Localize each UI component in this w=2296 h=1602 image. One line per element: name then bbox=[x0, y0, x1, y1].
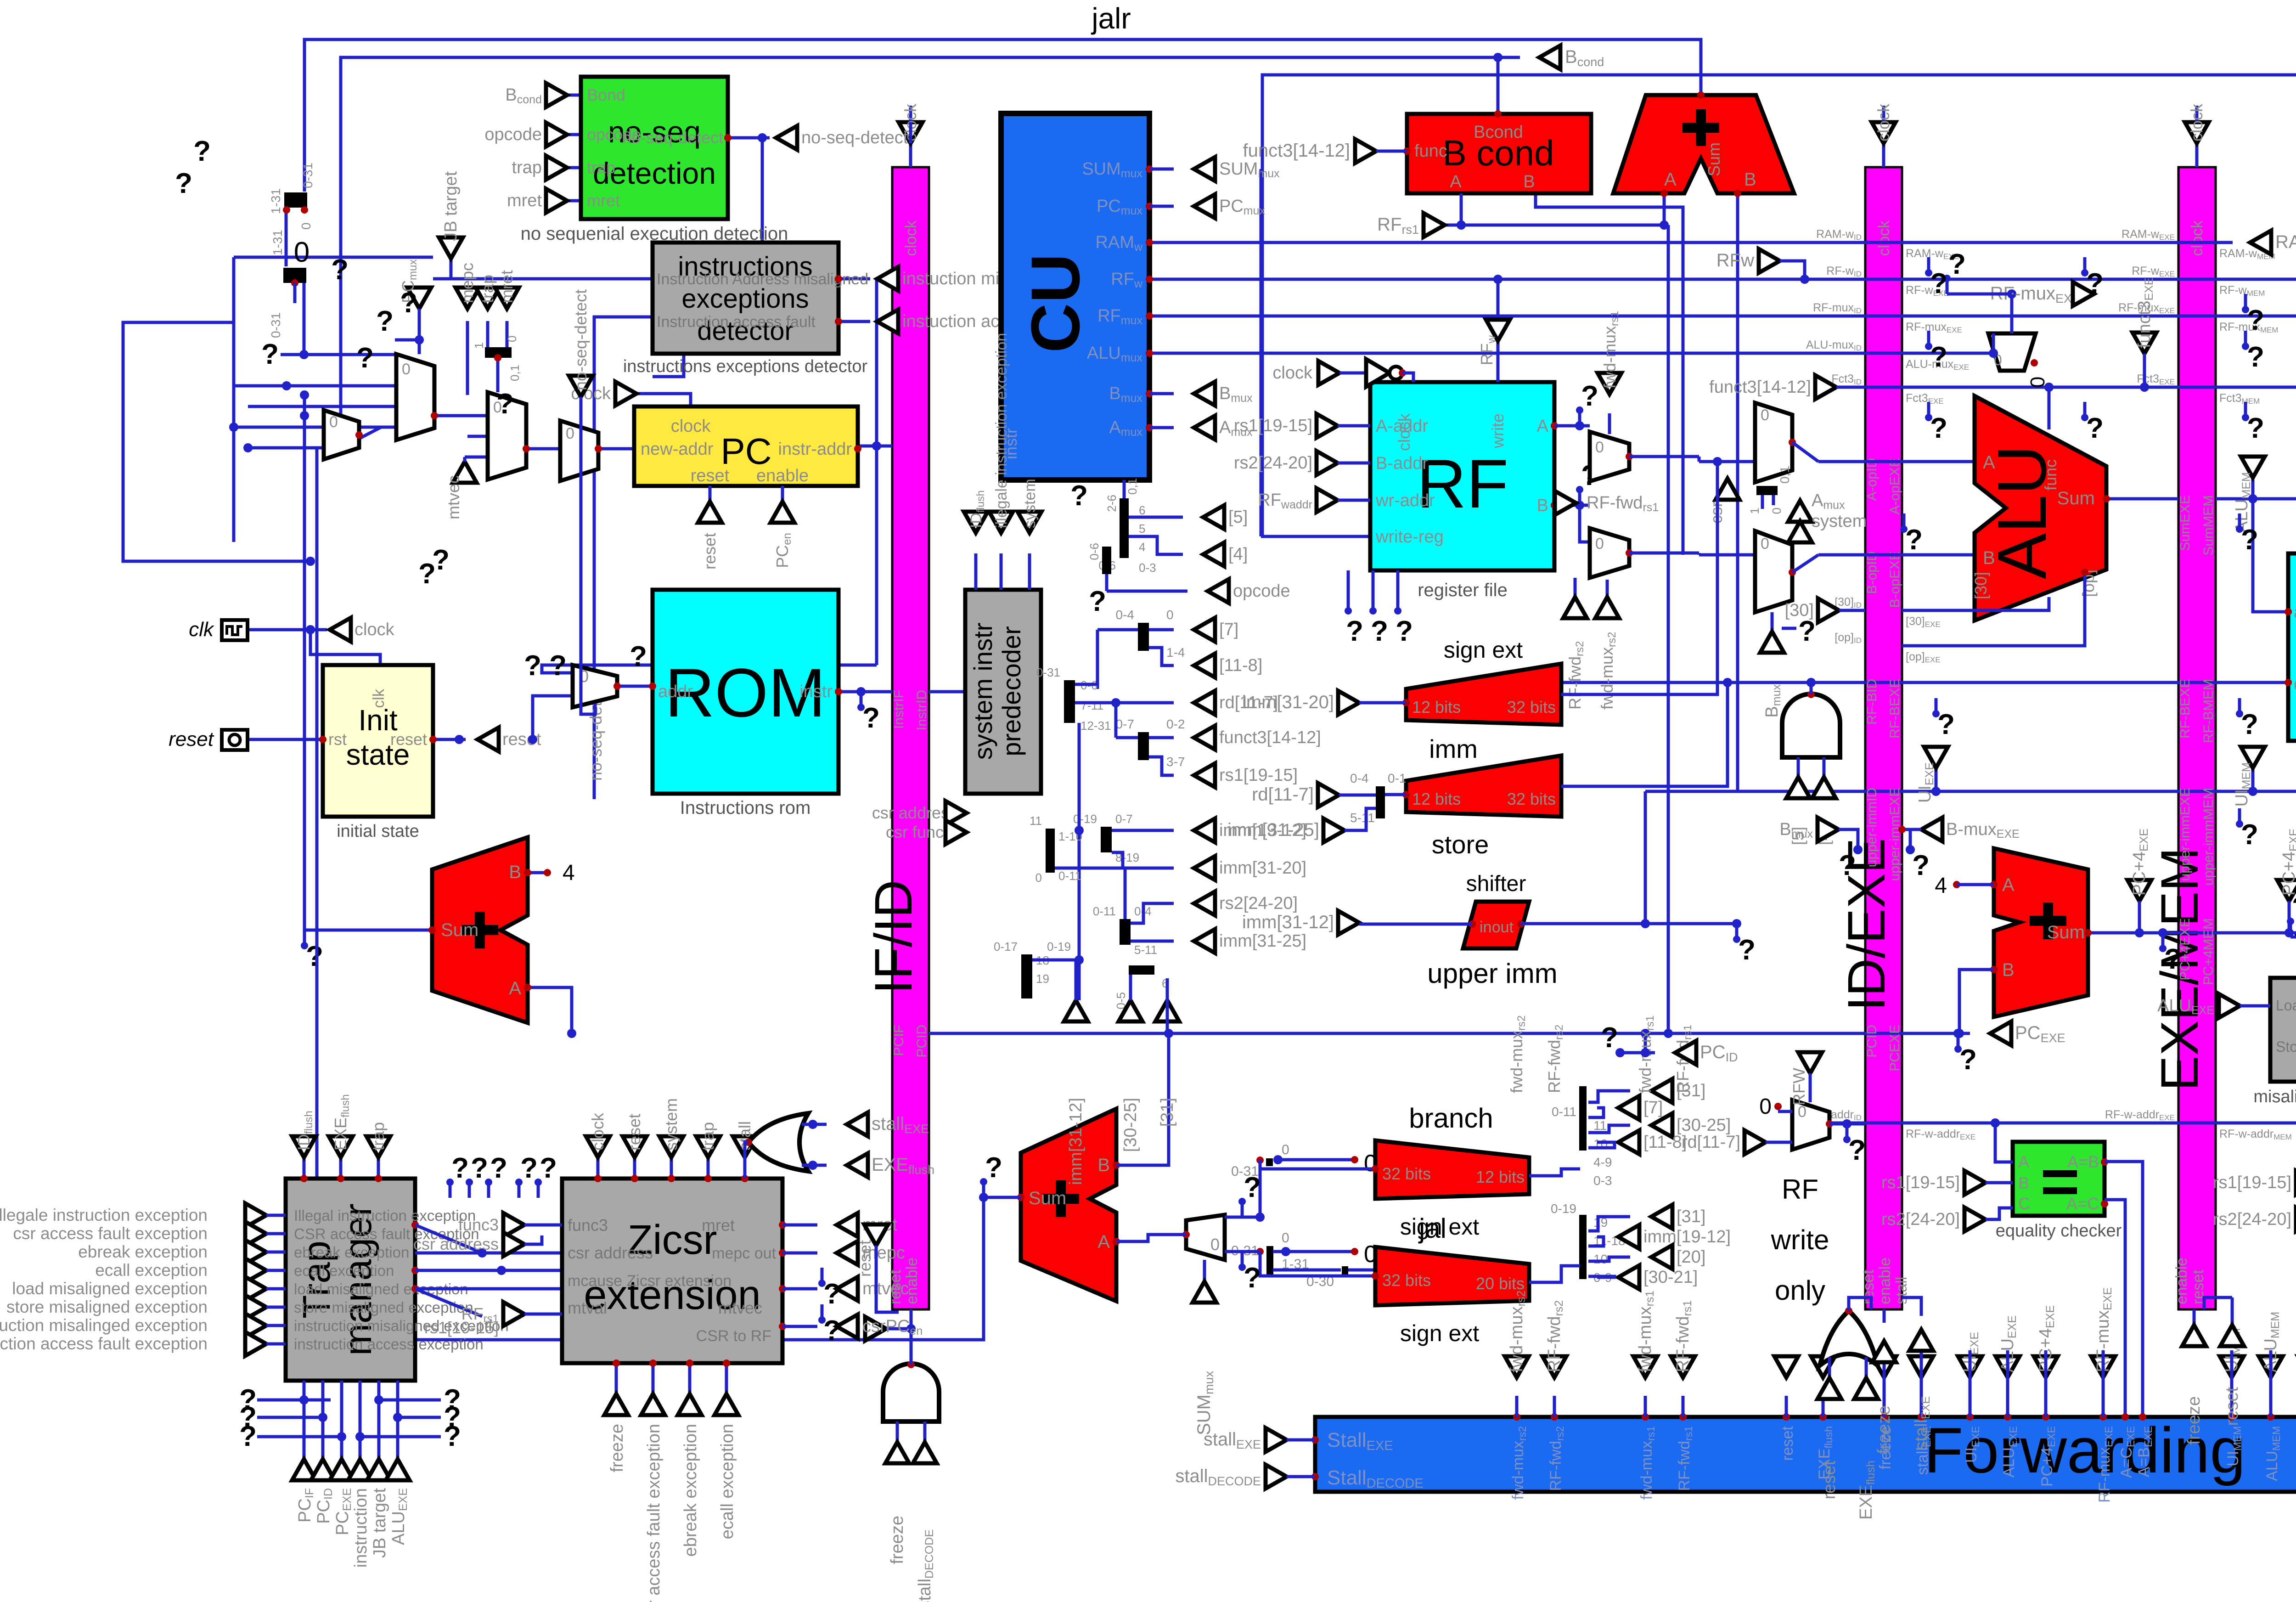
svg-text:Bcond: Bcond bbox=[1474, 123, 1523, 142]
component no-seq detection bbox=[581, 77, 728, 219]
branch zero-splitter chain bbox=[1266, 1158, 1273, 1166]
trap manager top pins bbox=[303, 1157, 306, 1179]
wire ALU-mux trunk bbox=[1149, 352, 1993, 355]
clock tunnel for PC bbox=[615, 382, 636, 406]
svg-text:4: 4 bbox=[1935, 874, 1947, 898]
splitter srs2 bbox=[1120, 919, 1131, 945]
wire Sum_MEM drop to RAM address bbox=[2253, 499, 2288, 612]
svg-text:?: ? bbox=[549, 650, 567, 682]
svg-text:rd[11-7]: rd[11-7] bbox=[1682, 1133, 1740, 1152]
svg-text:?: ? bbox=[376, 305, 394, 337]
svg-text:?: ? bbox=[823, 1315, 841, 1347]
svg-text:instructions exceptions dete: instructions exceptions detector bbox=[623, 357, 868, 376]
component RAM bbox=[2288, 553, 2296, 741]
svg-text:Sum: Sum bbox=[1705, 142, 1723, 176]
svg-text:?: ? bbox=[261, 338, 279, 370]
svg-text:?: ? bbox=[2247, 341, 2264, 373]
svg-text:[30-25]: [30-25] bbox=[1121, 1098, 1140, 1152]
svg-text:JB target: JB target bbox=[370, 1488, 389, 1558]
wire A-op across bar to ALU bbox=[1818, 460, 1975, 463]
svg-text:0: 0 bbox=[299, 222, 313, 230]
svg-text:misaligned memory detector: misaligned memory detector bbox=[2253, 1087, 2296, 1106]
splitter simm1 bbox=[1046, 829, 1055, 873]
component equality checker EXE bbox=[2013, 1142, 2105, 1216]
svg-text:0-19: 0-19 bbox=[1073, 812, 1097, 826]
tunnel reset bbox=[455, 735, 464, 744]
svg-text:mret: mret bbox=[497, 270, 516, 303]
wire green box inputs bbox=[546, 94, 581, 97]
svg-text:A: A bbox=[1450, 172, 1462, 192]
component ALU bbox=[1975, 396, 2106, 620]
or gate stallEXE flush bbox=[748, 1113, 808, 1171]
wire mux3 out to PC new-addr bbox=[598, 447, 634, 451]
svg-text:rs2[24-20]: rs2[24-20] bbox=[1234, 453, 1312, 473]
component Zicsr extension bbox=[562, 1179, 782, 1363]
mux SUM_mux bbox=[1186, 1215, 1225, 1260]
svg-text:RF-BMEM: RF-BMEM bbox=[2201, 679, 2216, 743]
ID/EXE freeze stall pins bbox=[1883, 1309, 1886, 1323]
svg-text:11: 11 bbox=[1030, 814, 1042, 828]
svg-text:B: B bbox=[1097, 1155, 1110, 1175]
svg-text:[30-21]: [30-21] bbox=[1643, 1268, 1698, 1287]
svg-text:0: 0 bbox=[1759, 1094, 1772, 1119]
svg-text:A=C: A=C bbox=[2066, 1194, 2099, 1213]
wire branch out to splitter bbox=[1260, 1160, 1375, 1169]
svg-text:0-31: 0-31 bbox=[301, 163, 315, 188]
svg-text:Instructions rom: Instructions rom bbox=[680, 798, 811, 818]
svg-text:?: ? bbox=[471, 1152, 488, 1184]
wire jalr adder A stub bbox=[1663, 193, 1666, 225]
SUM_mux select bbox=[1203, 1260, 1206, 1281]
wire jalr adder B drop bbox=[1736, 193, 1739, 791]
sign extender branch bbox=[1375, 1140, 1529, 1199]
wire no-seq-detect out bbox=[728, 136, 770, 140]
svg-text:rd[11-7]: rd[11-7] bbox=[1219, 693, 1278, 712]
qstubs between trap and zicsr bbox=[449, 1182, 452, 1198]
wire mux3 inputs bbox=[559, 447, 562, 451]
svg-text:12-31: 12-31 bbox=[1080, 719, 1111, 733]
wire splitter2 out to mux bbox=[281, 353, 396, 356]
svg-text:stall: stall bbox=[1893, 1277, 1910, 1304]
[30] tunnel into bar bbox=[1818, 598, 1839, 622]
svg-text:freeze: freeze bbox=[2184, 1396, 2204, 1445]
svg-text:0,1: 0,1 bbox=[508, 365, 522, 381]
svg-text:A=B: A=B bbox=[2067, 1152, 2099, 1171]
wire clock into PC bbox=[636, 394, 691, 406]
svg-text:exceptions: exceptions bbox=[681, 284, 809, 314]
wire branch Sum out to PC bbox=[984, 1196, 1021, 1199]
imm sign ext input bbox=[1338, 691, 1359, 715]
svg-text:2-6: 2-6 bbox=[1105, 495, 1119, 512]
svg-text:[31]: [31] bbox=[1158, 1098, 1177, 1127]
svg-text:A-opEXE: A-opEXE bbox=[1887, 458, 1902, 514]
wire clk junction drop bbox=[310, 630, 380, 665]
svg-text:RF: RF bbox=[1782, 1174, 1818, 1205]
svg-text:?: ? bbox=[1848, 1134, 1866, 1166]
wire clk input to clock tunnel bbox=[247, 628, 310, 632]
splitter sbig bbox=[1064, 680, 1075, 723]
svg-text:?: ? bbox=[2247, 305, 2264, 336]
svg-text:reset: reset bbox=[1779, 1426, 1796, 1461]
svg-text:B-opEXE: B-opEXE bbox=[1887, 551, 1902, 608]
output pins instructions exceptions detector bbox=[835, 275, 842, 282]
svg-text:32 bits: 32 bits bbox=[1382, 1164, 1431, 1183]
svg-text:12 bits: 12 bits bbox=[1476, 1168, 1525, 1186]
svg-text:enable: enable bbox=[1876, 1258, 1894, 1304]
clock pin of IF/ID bbox=[909, 143, 912, 167]
svg-text:0,1: 0,1 bbox=[1778, 466, 1792, 484]
PC_ID tunnel bbox=[1641, 1048, 1650, 1057]
svg-text:Sum: Sum bbox=[2057, 488, 2095, 508]
svg-text:CSR to RF: CSR to RF bbox=[696, 1327, 771, 1345]
svg-text:?: ? bbox=[1912, 850, 1930, 881]
component instructions exceptions detector bbox=[653, 243, 838, 354]
svg-text:5: 5 bbox=[1139, 522, 1145, 536]
svg-text:0-7: 0-7 bbox=[1115, 812, 1133, 826]
svg-text:trap: trap bbox=[369, 1122, 388, 1151]
svg-text:?: ? bbox=[2241, 524, 2258, 556]
zicsr left tunnels bbox=[503, 1213, 524, 1237]
mux B_mux before ALU bbox=[1755, 531, 1792, 612]
svg-text:0-19: 0-19 bbox=[1551, 1201, 1576, 1216]
wire B_cond top trunk bbox=[341, 57, 1520, 437]
svg-text:[30-25]: [30-25] bbox=[1677, 1116, 1731, 1135]
svg-text:trap: trap bbox=[587, 158, 615, 177]
field up-tunnels bbox=[1064, 1000, 1088, 1021]
wire B-cond B input drop bbox=[1536, 193, 1683, 555]
svg-text:clock: clock bbox=[902, 220, 920, 256]
svg-text:C: C bbox=[2018, 1194, 2030, 1213]
svg-text:A: A bbox=[1097, 1232, 1110, 1252]
svg-text:write: write bbox=[1488, 413, 1507, 449]
svg-text:B: B bbox=[1523, 172, 1535, 192]
svg-text:0-19: 0-19 bbox=[1047, 940, 1071, 953]
wire instruction-misaligned input line bbox=[433, 277, 653, 281]
wire Sum / ALU result trunk bbox=[2106, 497, 2178, 501]
wire instr vertical predecoder to CU bbox=[1260, 169, 1263, 536]
svg-text:imm[31-12]: imm[31-12] bbox=[1066, 1098, 1086, 1185]
svg-text:no-seq-detect: no-seq-detect bbox=[571, 289, 590, 390]
wire mux0 out diagonal bbox=[359, 427, 396, 439]
mux RF-mux_EXE small bbox=[1988, 333, 2036, 371]
svg-text:reset: reset bbox=[169, 728, 214, 750]
svg-text:imm[19-12]: imm[19-12] bbox=[1643, 1227, 1731, 1247]
wire mepc drop bbox=[466, 321, 469, 395]
mux pcsel 2 bbox=[488, 392, 526, 479]
svg-text:PC+4MEM: PC+4MEM bbox=[2201, 918, 2216, 985]
MEM group wires bbox=[2230, 1350, 2234, 1396]
svg-text:RFW: RFW bbox=[1790, 1068, 1808, 1106]
svg-text:1-31: 1-31 bbox=[269, 188, 283, 214]
svg-text:Sum: Sum bbox=[441, 920, 478, 940]
forwarding top pins bbox=[1513, 1413, 1520, 1421]
pins below PC bbox=[709, 486, 712, 502]
svg-text:funct3[14-12]: funct3[14-12] bbox=[1243, 141, 1351, 161]
wire reset input wire bbox=[247, 738, 323, 741]
Zicsr top pins bbox=[597, 1157, 600, 1179]
svg-text:imm[31-12]: imm[31-12] bbox=[1242, 912, 1334, 932]
tunnel JB target bbox=[439, 237, 463, 259]
svg-text:store: store bbox=[1432, 830, 1489, 859]
svg-text:Sum: Sum bbox=[2047, 922, 2085, 942]
RF write only output bbox=[1829, 1123, 1865, 1126]
svg-text:addr: addr bbox=[658, 682, 693, 701]
csr tunnel near A_mux bbox=[1716, 479, 1739, 500]
wire left horizontal into small mux bbox=[234, 426, 323, 429]
svg-text:20 bits: 20 bits bbox=[1476, 1274, 1525, 1293]
svg-text:Sum: Sum bbox=[1029, 1188, 1066, 1208]
svg-text:func3: func3 bbox=[568, 1216, 608, 1235]
svg-text:1-4: 1-4 bbox=[1166, 645, 1185, 660]
wire PC_IF vertical bbox=[875, 279, 878, 665]
svg-text:0,1: 0,1 bbox=[1125, 478, 1139, 495]
component Trap manager bbox=[286, 1179, 415, 1381]
svg-text:only: only bbox=[1775, 1275, 1825, 1306]
component RF register file bbox=[1370, 382, 1554, 570]
forwarding left input stall_DECODE bbox=[1266, 1465, 1287, 1489]
svg-text:instuction access fault exc: instuction access fault exception bbox=[0, 1334, 208, 1353]
svg-text:?: ? bbox=[331, 254, 349, 286]
funct3_EXE tunnel above ALU bbox=[2133, 333, 2156, 354]
mux fwd-mux rs1 bbox=[1590, 432, 1629, 481]
mux before ROM bbox=[573, 665, 617, 707]
svg-text:CU: CU bbox=[1017, 254, 1094, 353]
svg-text:?: ? bbox=[496, 388, 514, 420]
svg-text:clock: clock bbox=[1875, 220, 1893, 256]
svg-text:reset: reset bbox=[691, 466, 730, 485]
svg-text:mtvec: mtvec bbox=[444, 475, 463, 519]
svg-text:IF/ID: IF/ID bbox=[864, 880, 923, 994]
A_mux output wire bbox=[1792, 442, 1818, 462]
equality checker outputs to forwarding bbox=[2105, 1162, 2143, 1417]
wire big mux1 inputs bbox=[234, 384, 396, 388]
svg-text:B-opID: B-opID bbox=[1864, 551, 1880, 594]
wire ROM instr out bbox=[838, 690, 892, 694]
fwd-mux rs1 select pin bbox=[1608, 413, 1611, 434]
svg-text:0-11: 0-11 bbox=[1552, 1105, 1576, 1119]
svg-text:opcode: opcode bbox=[1233, 581, 1290, 601]
svg-text:trap: trap bbox=[512, 158, 542, 177]
svg-text:?: ? bbox=[2241, 709, 2258, 740]
trap manager to Zicsr wires bbox=[411, 1221, 419, 1229]
wire upper-imm vertical at decode bbox=[1644, 791, 1647, 924]
svg-text:0: 0 bbox=[1595, 439, 1604, 456]
RF write drop from RF_w trunk bbox=[1493, 275, 1503, 284]
svg-text:RAMw: RAMw bbox=[2275, 232, 2296, 254]
svg-text:?: ? bbox=[1738, 934, 1756, 966]
svg-text:mret: mret bbox=[587, 191, 620, 210]
A_mux system tunnels bbox=[1788, 501, 1812, 522]
wire far-left vertical to PC mux bbox=[315, 448, 319, 1340]
PC+4 EXE B input bbox=[1959, 970, 1994, 1033]
svg-text:[5]: [5] bbox=[1228, 508, 1248, 527]
svg-text:func: func bbox=[1414, 141, 1447, 161]
ALU func feed bbox=[2044, 383, 2054, 392]
wire left vertical feed mux B bbox=[303, 278, 306, 355]
A_mux select splitter bbox=[1756, 486, 1778, 495]
svg-text:csr address: csr address bbox=[568, 1243, 653, 1262]
svg-text:?: ? bbox=[1244, 1262, 1261, 1294]
svg-text:PCID: PCID bbox=[1864, 1025, 1880, 1058]
mux pcsel 3 bbox=[560, 421, 598, 481]
wire branch input from splitter bbox=[1529, 1169, 1580, 1176]
svg-text:RF-BEXE: RF-BEXE bbox=[2178, 679, 2193, 739]
svg-text:reset: reset bbox=[625, 1114, 644, 1151]
svg-text:0-6: 0-6 bbox=[1087, 543, 1101, 560]
svg-text:?: ? bbox=[1601, 1022, 1618, 1054]
svg-text:system: system bbox=[662, 1098, 681, 1151]
svg-text:ecall exception: ecall exception bbox=[718, 1424, 737, 1539]
wire ROM mux second input bbox=[533, 696, 573, 739]
svg-text:10: 10 bbox=[1593, 1252, 1608, 1266]
wire upper-imm trunk bbox=[1645, 790, 2296, 793]
svg-text:A: A bbox=[1983, 452, 1995, 473]
svg-text:B: B bbox=[1983, 548, 1995, 568]
svg-text:rs1[19-15]: rs1[19-15] bbox=[1219, 766, 1298, 785]
shifter output wire bbox=[1521, 922, 1645, 925]
svg-text:InstrIF: InstrIF bbox=[891, 690, 906, 729]
svg-text:load misaligned exception: load misaligned exception bbox=[12, 1279, 208, 1298]
svg-text:?: ? bbox=[862, 702, 880, 734]
wire PC_IF junction into ROM mux bbox=[542, 665, 877, 673]
wire IF adder sum vertical bbox=[303, 395, 306, 930]
svg-text:clock: clock bbox=[1272, 363, 1313, 383]
svg-text:Bond: Bond bbox=[587, 85, 625, 104]
svg-text:4-9: 4-9 bbox=[1593, 1155, 1612, 1169]
wire IF adder Sum out bbox=[304, 929, 432, 932]
svg-text:equality checker: equality checker bbox=[1996, 1221, 2122, 1241]
wire RF_rs1 drop bbox=[1667, 225, 1670, 1033]
PC_EXE tunnel bbox=[1958, 1032, 1970, 1035]
PC+4 tunnels bbox=[2127, 880, 2151, 901]
wire PC+4_EXE trunk bbox=[2088, 931, 2296, 935]
input reset bbox=[222, 730, 248, 750]
svg-text:out: out bbox=[1492, 919, 1514, 936]
splitter simm2 bbox=[1101, 827, 1112, 852]
svg-text:csr address: csr address bbox=[413, 1235, 499, 1253]
pipeline register IF/ID bbox=[892, 167, 929, 1309]
svg-text:A: A bbox=[1537, 417, 1549, 436]
svg-text:0-31: 0-31 bbox=[269, 312, 283, 338]
svg-text:?: ? bbox=[2241, 819, 2258, 851]
tunnel mtvec bbox=[453, 462, 477, 483]
CU tunnels SUM_mux PC_mux bbox=[1149, 168, 1174, 171]
wire jal input from splitter bbox=[1529, 1266, 1580, 1282]
ALU [30] feed bbox=[1902, 597, 2049, 610]
svg-text:0-3: 0-3 bbox=[1139, 561, 1156, 575]
wire B-op across bar to ALU bbox=[1818, 553, 1975, 557]
splitter top left 1 bbox=[284, 192, 307, 208]
branch field tunnels bbox=[1651, 1079, 1672, 1103]
equality checker EXE inputs bbox=[1964, 1171, 1986, 1195]
tunnel UI_EXE bbox=[1935, 768, 1938, 791]
svg-text:Load Address Misaligned: Load Address Misaligned bbox=[2276, 997, 2296, 1014]
svg-text:[30]: [30] bbox=[1971, 572, 1990, 599]
svg-text:trap: trap bbox=[698, 1122, 717, 1151]
svg-text:rst: rst bbox=[328, 730, 347, 749]
wire left vertical feed mux A bbox=[285, 207, 288, 266]
wire mux1 out bbox=[434, 414, 488, 417]
svg-text:0: 0 bbox=[566, 425, 574, 442]
svg-text:ecall exception: ecall exception bbox=[95, 1261, 208, 1280]
svg-text:data-in: data-in bbox=[2294, 675, 2296, 694]
svg-text:trap: trap bbox=[478, 275, 497, 303]
svg-text:?: ? bbox=[1396, 615, 1413, 647]
jal field tunnels bbox=[1651, 1205, 1672, 1229]
sign extender jal bbox=[1375, 1247, 1529, 1305]
svg-text:reset: reset bbox=[2223, 1387, 2242, 1426]
svg-text:5-11: 5-11 bbox=[1134, 943, 1157, 957]
svg-text:?: ? bbox=[175, 168, 192, 199]
wire IF adder A wire bbox=[528, 987, 572, 1033]
svg-text:0: 0 bbox=[1282, 1230, 1289, 1246]
svg-text:[11-8]: [11-8] bbox=[1643, 1133, 1687, 1152]
svg-text:0: 0 bbox=[1166, 608, 1174, 622]
svg-text:ebreak exception: ebreak exception bbox=[681, 1424, 700, 1557]
svg-text:instuction misalinged except: instuction misalinged exception bbox=[0, 1316, 208, 1335]
wire RAM_w trunk bbox=[1149, 241, 2233, 244]
svg-text:upper-immID: upper-immID bbox=[1864, 788, 1880, 867]
clock pin of ID/EXE bbox=[1882, 143, 1885, 167]
svg-text:?: ? bbox=[630, 641, 647, 672]
equality checker EXE A input from RF-w-addr bbox=[1995, 1123, 2013, 1162]
store splitter input bbox=[1376, 786, 1385, 818]
svg-text:PCIF: PCIF bbox=[891, 1025, 906, 1056]
final junction dots on trunks bbox=[1664, 1029, 1673, 1038]
svg-text:jalr: jalr bbox=[1091, 2, 1131, 35]
svg-text:4: 4 bbox=[563, 861, 575, 885]
svg-text:rs1[19-15]: rs1[19-15] bbox=[424, 1318, 499, 1337]
svg-text:0-3: 0-3 bbox=[1593, 1173, 1612, 1188]
svg-text:0: 0 bbox=[329, 413, 338, 431]
pipeline register EXE/MEM bbox=[2178, 167, 2216, 1309]
svg-text:instruction: instruction bbox=[351, 1488, 371, 1568]
svg-text:?: ? bbox=[2164, 943, 2182, 975]
mux pcsel 1 bbox=[396, 354, 434, 440]
svg-text:freeze: freeze bbox=[1874, 1405, 1894, 1454]
B cond tunnel bbox=[1539, 45, 1560, 69]
or gate inputs below bbox=[1828, 1357, 1831, 1378]
svg-text:1: 1 bbox=[1748, 508, 1761, 514]
trap manager bottom pins bbox=[303, 1381, 306, 1459]
svg-text:0: 0 bbox=[1761, 535, 1769, 553]
svg-text:4: 4 bbox=[1139, 540, 1145, 554]
wire exceptions detector outputs bbox=[838, 277, 870, 281]
splitter top left 2 bbox=[283, 268, 306, 283]
and gate inputs bbox=[1797, 757, 1800, 777]
svg-text:RF-BEXE: RF-BEXE bbox=[1887, 679, 1902, 739]
wire mux2 out bbox=[526, 447, 560, 451]
wire funct3 EXE trunk bbox=[1836, 386, 2296, 389]
pipeline register ID/EXE bbox=[1865, 167, 1902, 1309]
svg-text:mepc out: mepc out bbox=[712, 1245, 776, 1262]
wire Sum_MEM trunk bbox=[2216, 497, 2296, 501]
wire mux2 inputs bbox=[459, 414, 488, 417]
svg-text:illegale instruction exception: illegale instruction exception bbox=[993, 333, 1010, 528]
wire left horizontal y560 bbox=[234, 256, 433, 259]
svg-text:RF: RF bbox=[1417, 445, 1508, 522]
svg-text:?: ? bbox=[823, 1278, 841, 1310]
svg-text:0-31: 0-31 bbox=[1036, 666, 1060, 679]
svg-text:RF-BID: RF-BID bbox=[1864, 679, 1880, 725]
or gate output to bar bbox=[1849, 1297, 1871, 1311]
svg-text:register file: register file bbox=[1418, 580, 1508, 600]
svg-text:rs2[24-20]: rs2[24-20] bbox=[2213, 1210, 2291, 1229]
svg-text:ebreak exception: ebreak exception bbox=[78, 1242, 208, 1261]
svg-text:?: ? bbox=[1070, 480, 1088, 512]
svg-text:enable: enable bbox=[756, 466, 809, 485]
svg-text:[30]: [30] bbox=[1785, 601, 1814, 620]
